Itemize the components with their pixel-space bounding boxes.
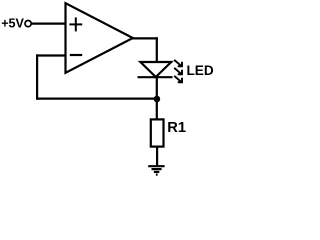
ground [148, 166, 164, 174]
wire (+5V terminal to op-amp non-inverting input) [31, 23, 66, 25]
wire (output vertical segment to LED anode) [156, 37, 158, 62]
wire (feedback bottom horizontal segment to node A) [36, 97, 157, 99]
terminal (+5V input terminal circle) [25, 21, 31, 27]
svg-text:LED: LED [187, 63, 214, 78]
wire (op-amp output horizontal segment) [132, 37, 158, 39]
diode LED (cathode bar) [138, 76, 173, 78]
wire (LED cathode to node A) [156, 77, 158, 120]
pin - (inverting input symbol) [70, 54, 82, 56]
node A (junction dot) [154, 96, 161, 103]
wire (inverting input horizontal segment) [36, 54, 67, 56]
diode LED (triangle) [140, 62, 171, 77]
op-amp U1 [66, 3, 133, 73]
resistor R1 [151, 119, 164, 146]
wire (R1 to ground) [156, 146, 158, 167]
wire (feedback vertical segment) [36, 54, 38, 99]
LED light arrow 2 [174, 68, 182, 74]
svg-text:R1: R1 [167, 120, 186, 136]
LED light arrow 3 [174, 76, 182, 82]
LED light arrow 1 [174, 60, 182, 66]
svg-text:+5V: +5V [1, 16, 24, 30]
pin + (non-inverting input symbol) [69, 17, 82, 31]
